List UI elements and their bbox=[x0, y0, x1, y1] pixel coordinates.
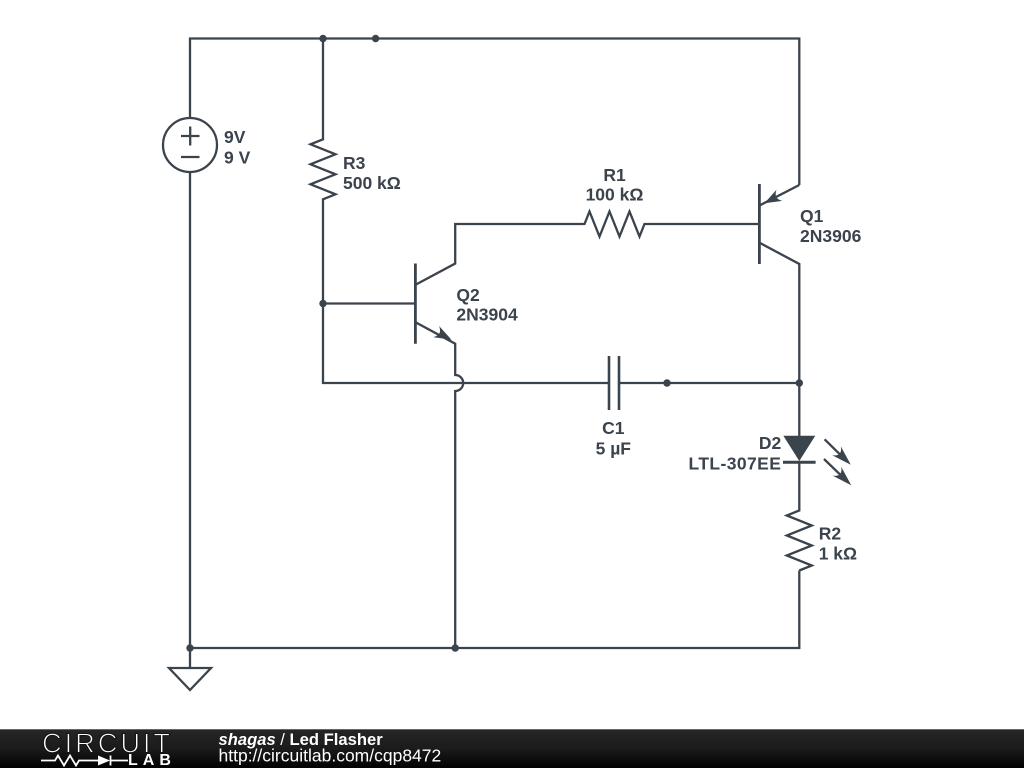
wire Q2 emitter down with hop over y383 bbox=[416, 323, 463, 649]
transistor Q2 2N3904 bar bbox=[414, 264, 417, 344]
wire C1 right to LED top bbox=[619, 383, 799, 437]
svg-text:D2: D2 bbox=[759, 433, 782, 453]
node dot bottom left ground bbox=[186, 644, 193, 651]
wire R3 top + resistor R3 + wire down to y383 + wire to C1 bbox=[311, 39, 610, 384]
svg-text:Q2: Q2 bbox=[456, 285, 480, 305]
voltage source V1 9V bbox=[163, 118, 217, 172]
node dot bottom Q2 emitter bbox=[452, 644, 459, 651]
svg-text:R1: R1 bbox=[603, 165, 626, 185]
svg-text:5 µF: 5 µF bbox=[596, 438, 632, 458]
transistor Q1 2N3906 bar bbox=[758, 184, 761, 264]
CircuitLab logo symbol (resistor + diode) bbox=[41, 756, 128, 766]
svg-text:Q1: Q1 bbox=[800, 206, 824, 226]
wire Q1 collector down to node bbox=[760, 243, 799, 383]
svg-text:2N3904: 2N3904 bbox=[456, 304, 518, 324]
footer bar bbox=[0, 729, 1024, 768]
svg-text:9V: 9V bbox=[224, 127, 246, 147]
node dot y383 mid bbox=[663, 379, 670, 386]
svg-text:C1: C1 bbox=[602, 418, 625, 438]
Q1 emitter arrow bbox=[764, 190, 782, 204]
footer title text bbox=[219, 730, 442, 765]
svg-text:LAB: LAB bbox=[128, 752, 176, 768]
wire Q2 collector + R1 resistor + wire to Q1 base bbox=[416, 212, 758, 285]
wire LED to R2 + resistor R2 bbox=[787, 462, 812, 570]
LED emission arrow 2 bbox=[824, 459, 851, 485]
ground bbox=[169, 648, 211, 690]
LED D2 cathode bar bbox=[783, 461, 816, 464]
wire battery bottom + bottom rail + R2 bottom wire bbox=[190, 172, 799, 648]
svg-text:LTL-307EE: LTL-307EE bbox=[689, 453, 782, 473]
capacitor C1 plates bbox=[609, 356, 619, 410]
svg-text:9 V: 9 V bbox=[224, 148, 251, 168]
wire battery top + top rail + Q1 emitter wire bbox=[190, 39, 799, 186]
svg-text:1 kΩ: 1 kΩ bbox=[819, 544, 857, 564]
svg-text:500 kΩ: 500 kΩ bbox=[343, 173, 401, 193]
wire Q2 base bbox=[323, 302, 414, 304]
node dot top rail mid bbox=[372, 35, 379, 42]
node dot top rail at R3 bbox=[319, 35, 326, 42]
node dot Q2 base junction bbox=[319, 300, 326, 307]
svg-text:100 kΩ: 100 kΩ bbox=[586, 185, 644, 205]
node dot Q1 collector / LED bbox=[796, 379, 803, 386]
CircuitLab logo text bbox=[42, 727, 176, 768]
svg-text:http://circuitlab.com/cqp8472: http://circuitlab.com/cqp8472 bbox=[219, 746, 442, 766]
LED D2 triangle bbox=[785, 437, 814, 460]
Q2 emitter arrow bbox=[433, 326, 451, 340]
svg-text:R3: R3 bbox=[343, 153, 366, 173]
Q1 emitter diagonal bbox=[760, 185, 799, 205]
svg-text:R2: R2 bbox=[819, 523, 842, 543]
LED emission arrow 1 bbox=[825, 439, 851, 465]
svg-text:2N3906: 2N3906 bbox=[800, 226, 862, 246]
